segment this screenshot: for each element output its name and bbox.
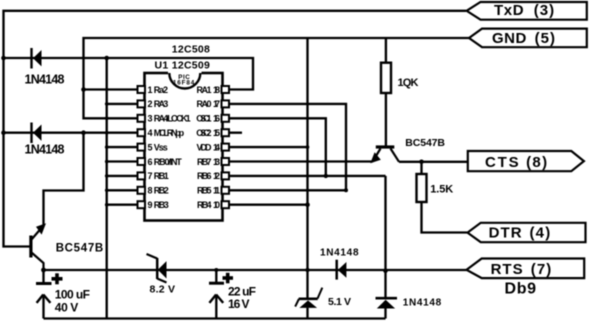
svg-text:1N4148: 1N4148 [25,73,65,87]
svg-text:18: 18 [213,85,220,95]
svg-text:5: 5 [148,142,153,152]
svg-text:BC547B: BC547B [405,137,445,149]
svg-text:GND: GND [492,30,526,47]
svg-text:1N4148: 1N4148 [25,143,65,157]
svg-text:RA0: RA0 [197,99,212,109]
svg-text:8: 8 [148,186,153,196]
svg-text:1QK: 1QK [398,77,419,89]
svg-text:14: 14 [213,142,220,152]
svg-text:BC547B: BC547B [56,243,103,255]
svg-text:(4): (4) [530,225,551,242]
svg-text:MCLRNpp: MCLRNpp [154,128,185,138]
svg-text:RB6: RB6 [197,171,212,181]
svg-text:OSC2: OSC2 [196,128,211,138]
svg-text:11: 11 [213,186,220,196]
svg-text:RB2: RB2 [154,186,169,196]
svg-text:1.5K: 1.5K [430,183,453,195]
svg-text:15: 15 [213,128,220,138]
svg-text:RA3: RA3 [154,99,169,109]
svg-text:(7): (7) [531,261,552,278]
svg-text:VDD: VDD [197,142,213,152]
svg-text:16F84: 16F84 [173,80,195,87]
svg-text:2: 2 [148,99,153,109]
svg-text:Vss: Vss [154,142,168,152]
svg-text:RB5: RB5 [197,186,212,196]
svg-text:U1 12C509: U1 12C509 [155,59,211,71]
svg-text:3: 3 [148,114,153,124]
svg-text:CTS: CTS [485,154,519,171]
svg-text:9: 9 [148,200,153,210]
svg-text:RB3: RB3 [154,200,169,210]
svg-text:TxD: TxD [494,2,524,19]
svg-text:RA4/LOCK1: RA4/LOCK1 [154,114,191,124]
svg-text:16 V: 16 V [228,297,250,311]
svg-text:(8): (8) [526,154,547,171]
svg-text:RA1: RA1 [197,85,212,95]
svg-text:RB4: RB4 [197,200,212,210]
svg-text:RB1: RB1 [154,171,169,181]
svg-text:40 V: 40 V [55,300,79,314]
svg-text:12: 12 [213,171,220,181]
svg-text:6: 6 [148,157,153,167]
svg-text:13: 13 [213,157,220,167]
svg-text:(3): (3) [534,2,554,19]
svg-text:1: 1 [148,85,153,95]
svg-text:17: 17 [213,99,220,109]
svg-text:7: 7 [148,171,153,181]
svg-text:4: 4 [148,128,153,138]
svg-text:10: 10 [213,200,220,210]
svg-text:OSC1: OSC1 [196,114,211,124]
svg-text:RB7: RB7 [197,157,212,167]
svg-text:12C508: 12C508 [172,43,210,55]
svg-text:16: 16 [213,114,220,124]
svg-text:5.1 V: 5.1 V [328,296,351,308]
svg-text:Db9: Db9 [505,281,537,298]
svg-text:RB0/INT: RB0/INT [154,157,183,167]
svg-text:DTR: DTR [489,225,522,242]
svg-text:Ra2: Ra2 [154,85,168,95]
svg-text:(5): (5) [535,30,555,47]
svg-text:1N4148: 1N4148 [320,248,359,259]
svg-text:8.2 V: 8.2 V [150,284,176,296]
svg-text:1N4148: 1N4148 [403,298,442,309]
svg-text:RTS: RTS [491,261,523,278]
